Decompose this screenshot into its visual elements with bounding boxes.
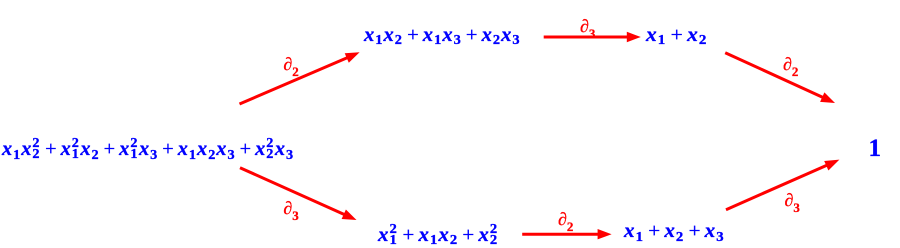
node N2: top middle x1x2+x1x3+x2x3 (364, 25, 521, 45)
node N3: top right x1+x2 (646, 25, 707, 45)
node N4: right node 1 (869, 136, 883, 161)
arrow A4: N1 to N5, label d3 (240, 168, 357, 220)
label L3: d2 on arrow A3 (783, 55, 798, 73)
node N1: left polynomial x1x2^2+x1^2x2+x1^2x3+x1x2x3+x2^2x3 (2, 139, 294, 159)
label L1: d2 on arrow A1 (283, 55, 298, 73)
arrow A6: N6 to N4, label d3 (726, 160, 839, 210)
arrow A3: N3 to N4, label d2 (725, 53, 835, 103)
node N6: bottom right x1+x2+x3 (624, 221, 725, 241)
label L4: d3 on arrow A4 (283, 199, 298, 217)
arrow A2: N2 to N3, label d3 (544, 32, 641, 42)
label L5: d2 on arrow A5 (558, 210, 573, 228)
arrow A1: N1 to N2, label d2 (240, 52, 360, 104)
node N5: bottom middle x1^2+x1x2+x2^2 (378, 225, 499, 245)
label L2: d3 on arrow A2 (580, 17, 595, 35)
arrow A5: N5 to N6, label d2 (522, 229, 611, 239)
label L6: d3 on arrow A6 (785, 191, 800, 209)
